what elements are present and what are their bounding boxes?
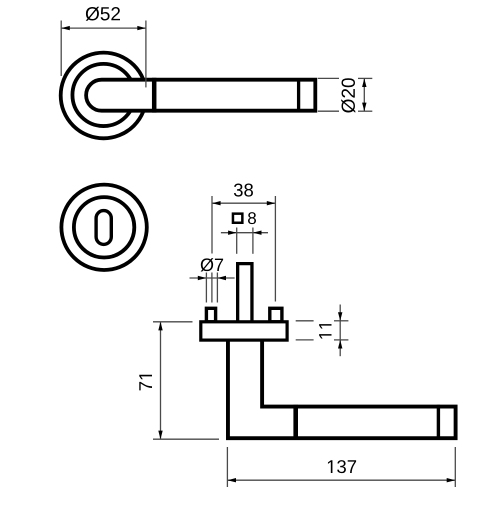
11 bottom arrow (outside, pointing up) [338,340,342,349]
right screw tab [270,308,282,322]
71 top extension line [153,321,193,323]
Ø20 bottom arrow [362,103,366,112]
8 right extension line [252,228,254,254]
dimension Ø52 line [61,27,146,29]
137 right extension line [454,447,456,487]
Ø7 left arrow (outside, pointing right) [198,276,207,280]
left screw tab [206,308,215,322]
38 left arrow [212,201,221,205]
keyhole slot [96,211,111,245]
11 dimension line [339,305,341,357]
Ø20 bottom extension line [318,110,339,112]
escutcheon outer circle [61,185,146,270]
Ø7 right arrow (outside, pointing left) [217,276,226,280]
dimension 8 line [221,232,268,234]
dimension 38 line [212,202,275,204]
dimension 71 text (rotated) [139,375,152,391]
38 right arrow [267,201,276,205]
Ø20 dimension line [363,78,365,111]
end cap line [297,78,300,112]
11 top extension line [296,320,314,322]
Ø52 right arrow [137,26,146,30]
71 top arrow [158,322,162,331]
rose outer circle [61,53,147,139]
8 left extension line [236,228,238,254]
Ø7 right extension line [216,273,218,303]
Ø52 left arrow [61,26,70,30]
rose plate (side) [201,322,287,340]
spindle (square bar) [238,264,252,322]
Ø7 left extension line [205,273,207,303]
dimension Ø7 text [201,258,223,271]
71 bottom arrow [158,431,162,440]
8 left arrow (outside, pointing right) [228,231,237,235]
38 left extension line [211,196,213,254]
square symbol of 8 dimension [233,214,242,223]
dimension 11 text (rotated) [319,324,331,338]
dimension 71 line [160,322,162,439]
lever end cap line (side) [437,405,440,440]
dimension Ø20 text (rotated) [341,78,355,113]
Ø7 center line [211,273,213,303]
137 left arrow [227,478,236,482]
dimension 137 line [227,479,455,481]
dimension Ø52 text [86,7,120,21]
neck + lever outline [228,338,456,438]
11 bottom extension line [296,339,314,341]
Ø52 left extension line [60,21,62,77]
Ø20 top extension line [318,77,339,79]
dimension 8 text [248,212,256,224]
dimension Ø7 line [190,277,235,279]
38 right extension line [274,196,276,302]
lever joint line (side) [293,405,298,440]
137 left extension line [226,447,228,487]
lever bar (stadium) [86,80,315,111]
escutcheon inner circle [74,197,134,257]
neck joint line [152,78,157,113]
71 bottom extension line [153,438,219,440]
Ø20 top arrow [362,78,366,87]
rose inner circle [72,64,134,126]
dimension 38 text [234,183,253,196]
137 right arrow [447,478,456,482]
Ø52 right extension line [145,21,147,88]
dimension 137 text [328,460,356,473]
11 top arrow (outside, pointing down) [338,312,342,321]
8 right arrow (outside, pointing left) [253,231,262,235]
